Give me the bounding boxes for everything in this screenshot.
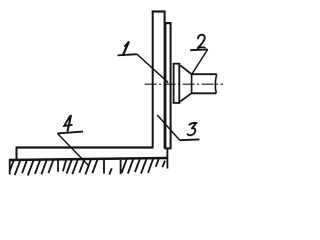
ground hatching xyxy=(9,158,165,175)
centerline: fastener axis (dash-dot) xyxy=(145,83,223,85)
ground right edge xyxy=(166,150,168,169)
leader line 4 (shelf + slant to base plate) xyxy=(57,132,89,166)
label digit 2 xyxy=(198,35,205,48)
part 4: base plate xyxy=(17,147,154,161)
label digit 4 xyxy=(64,116,72,131)
part 2 fastener: washer flange xyxy=(173,63,181,103)
leader line 2 (shelf + slant to fastener) xyxy=(190,49,208,75)
label digit 3 xyxy=(188,123,197,135)
ground slot edge a xyxy=(103,160,105,174)
leader line 3 (shelf + slant to tall plate) xyxy=(157,115,199,140)
part 2 fastener: shaft with break line xyxy=(192,74,217,93)
part 1: short clamped plate xyxy=(164,23,171,148)
part 2 fastener: conical head xyxy=(180,65,191,101)
label digit 1 xyxy=(122,42,129,55)
ground division line xyxy=(57,160,59,172)
ground slot edge b xyxy=(120,160,122,174)
part 3: tall vertical plate (bracket leg) xyxy=(152,11,166,148)
ground left edge xyxy=(9,160,11,175)
leader line 1 (shelf + slant to short plate) xyxy=(118,54,169,82)
ground surface line xyxy=(9,158,167,160)
